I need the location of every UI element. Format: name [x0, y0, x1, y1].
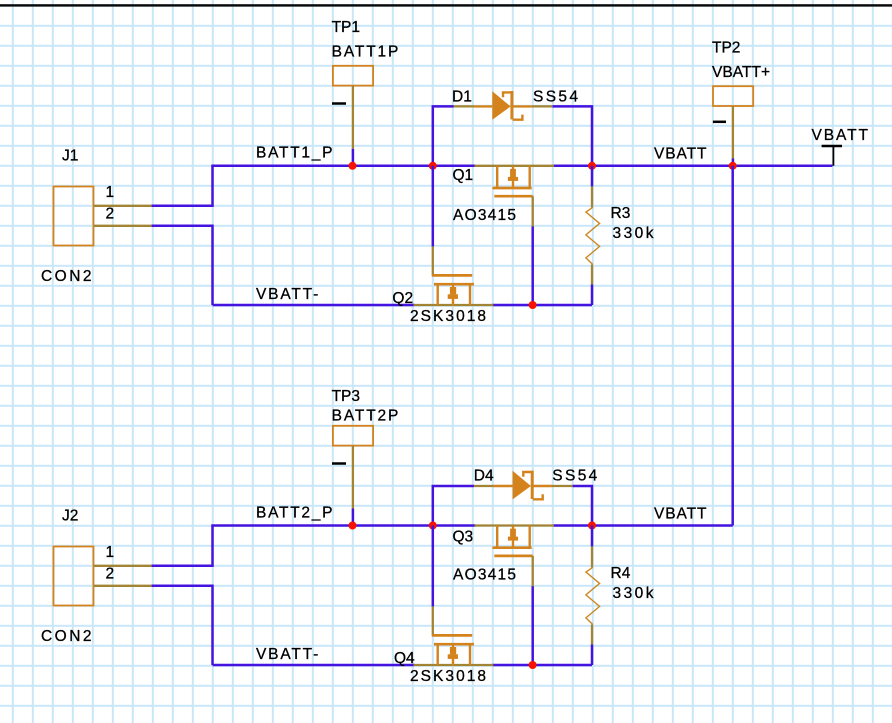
J1 pin 2	[94, 225, 152, 227]
svg-text:2: 2	[106, 566, 115, 583]
TP2 pin number mark	[713, 121, 726, 124]
wire VBATT- rail circuit 2	[213, 664, 415, 667]
diode D1 anode pin	[454, 105, 475, 107]
resistor R4	[586, 526, 600, 666]
diode D1 cathode pin	[532, 105, 553, 107]
wire D1 cathode down to rail	[552, 106, 592, 165]
junction on VBATT- rail at Q1 gate	[529, 301, 537, 309]
svg-text:Q2: Q2	[392, 290, 413, 307]
svg-text:330k: 330k	[613, 225, 654, 242]
svg-text:2SK3018: 2SK3018	[410, 308, 486, 325]
wire BATT2_P / VBATT rail circuit 2	[211, 524, 475, 527]
svg-text:CON2: CON2	[41, 268, 92, 285]
wire rail branch down to Q4 gate	[432, 526, 435, 607]
svg-text:BATT1_P: BATT1_P	[256, 145, 333, 162]
svg-text:VBATT+: VBATT+	[712, 64, 770, 81]
svg-text:J1: J1	[62, 148, 78, 165]
svg-text:VBATT-: VBATT-	[256, 646, 318, 663]
svg-text:TP1: TP1	[332, 19, 360, 36]
svg-text:1: 1	[106, 184, 115, 201]
TP2 pin	[732, 106, 734, 159]
diode D4	[493, 471, 552, 500]
wire J1 pin1 to BATT1_P rail	[152, 166, 213, 206]
J1 pin 1	[94, 205, 152, 207]
transistor Q2 2SK3018	[414, 246, 494, 305]
svg-text:VBATT: VBATT	[812, 127, 869, 144]
junction at D4/Q4 branch on rail	[429, 522, 437, 530]
junction at D4 cathode / R4 on rail	[588, 522, 596, 530]
test point TP1 body	[333, 66, 373, 86]
wire TP1 to rail	[352, 149, 355, 166]
svg-text:SS54: SS54	[552, 468, 597, 485]
svg-text:2SK3018: 2SK3018	[410, 668, 486, 685]
wire J1 pin2 to VBATT- rail	[152, 226, 213, 305]
wire TP3 to rail	[352, 509, 355, 526]
diode D4 anode pin	[474, 485, 494, 487]
svg-text:AO3415: AO3415	[453, 207, 516, 224]
test point TP2 body	[713, 86, 753, 106]
svg-text:330k: 330k	[613, 585, 654, 602]
svg-text:1: 1	[106, 544, 115, 561]
port VBATT	[812, 127, 869, 166]
TP3 pin number mark	[332, 462, 346, 465]
svg-text:BATT1P: BATT1P	[332, 43, 399, 60]
transistor Q3 AO3415	[475, 526, 555, 587]
connector J2 body	[54, 547, 94, 606]
svg-text:Q3: Q3	[453, 529, 474, 546]
TP1 pin	[352, 86, 354, 149]
diode D4 cathode pin	[552, 485, 573, 487]
VBATT bus wire down to circuit 2	[731, 166, 734, 526]
connector J1 body	[54, 187, 94, 246]
svg-text:BATT2_P: BATT2_P	[256, 505, 333, 522]
svg-text:D1: D1	[452, 89, 472, 106]
junction on VBATT- rail at Q3 gate	[529, 661, 537, 669]
svg-text:TP3: TP3	[332, 388, 360, 405]
J2 pin 2	[94, 585, 152, 587]
svg-text:TP2: TP2	[712, 39, 740, 56]
TP3 pin	[352, 446, 354, 509]
test point TP3 body	[333, 426, 373, 446]
junction at D1 cathode / R3 on rail	[588, 162, 596, 170]
junction on BATT2_P rail at TP3	[349, 522, 357, 530]
svg-text:D4: D4	[474, 468, 494, 485]
wire TP2 to rail	[732, 159, 735, 166]
svg-text:J2: J2	[62, 508, 78, 525]
junction at D1/Q2 branch on rail	[429, 162, 437, 170]
svg-text:VBATT-: VBATT-	[256, 286, 318, 303]
svg-text:AO3415: AO3415	[453, 567, 516, 584]
J2 pin 1	[94, 565, 152, 567]
transistor Q1 AO3415	[475, 166, 555, 227]
junction at TP2 / VBATT bus	[729, 162, 737, 170]
junction on BATT1_P rail at TP1	[349, 162, 357, 170]
resistor R3	[586, 166, 600, 305]
TP1 pin number mark	[332, 102, 346, 105]
wire BATT1_P / VBATT rail	[211, 165, 475, 168]
diode D1	[474, 91, 532, 120]
transistor Q4 2SK3018	[414, 606, 494, 665]
wire Q1 gate to VBATT- rail	[531, 227, 534, 306]
svg-text:CON2: CON2	[41, 628, 92, 645]
svg-text:BATT2P: BATT2P	[332, 407, 399, 424]
svg-text:Q4: Q4	[394, 650, 415, 667]
svg-text:VBATT: VBATT	[654, 506, 707, 523]
wire J2 pin2 to VBATT- rail	[152, 586, 213, 665]
svg-text:VBATT: VBATT	[654, 146, 707, 163]
wire VBATT- rail	[213, 304, 415, 307]
svg-text:Q1: Q1	[453, 167, 474, 184]
svg-text:R3: R3	[611, 205, 631, 222]
svg-text:2: 2	[106, 206, 115, 223]
wire rail branch down to Q2 gate	[432, 166, 435, 247]
wire J2 pin1 to BATT2_P rail	[152, 526, 213, 566]
wire D4/Q4 branch from rail up to diode row	[433, 486, 474, 526]
wire D4 cathode down to rail	[573, 486, 592, 526]
wire Q3 gate to VBATT- rail circuit 2	[531, 586, 534, 665]
svg-text:SS54: SS54	[533, 89, 578, 106]
wire D1/Q2 branch from rail up to diode row	[433, 106, 454, 165]
svg-text:R4: R4	[611, 565, 631, 582]
